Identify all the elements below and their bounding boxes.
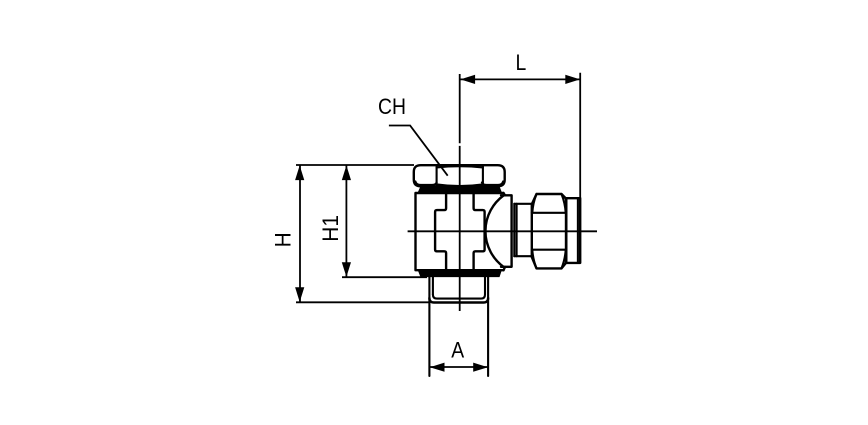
neck washer line (516, 204, 518, 256)
label CH (378, 95, 406, 119)
top hex nut outline (414, 165, 505, 186)
spherical boss arc (485, 196, 503, 267)
dimension H1 line with arrows (342, 165, 351, 277)
stud bottom edge (429, 298, 488, 303)
top gasket ring (418, 186, 502, 192)
body step to rim top (504, 193, 506, 195)
svg-text:L: L (516, 51, 527, 75)
end cap inner line (577, 198, 579, 263)
extension line bottom H (296, 301, 429, 303)
neck bottom edge (514, 255, 532, 257)
neck left edge (513, 204, 515, 256)
label H1 (319, 215, 344, 242)
svg-text:H1: H1 (319, 215, 344, 242)
rim (501, 195, 512, 266)
top hex facet separator left (436, 166, 438, 184)
cartridge hex facet line lower (532, 249, 566, 251)
dimension H line with arrows (295, 165, 304, 302)
top hex facet separator right (482, 166, 484, 184)
horizontal centerline (408, 230, 597, 232)
dimension A line with arrows (430, 363, 488, 372)
leader line CH (389, 126, 448, 176)
bore step left (435, 193, 446, 270)
label H (271, 232, 296, 247)
cartridge hex facet line upper (532, 212, 566, 214)
dimension L line with arrows (460, 75, 580, 84)
extension line right of L (579, 73, 581, 198)
extension line bottom H1 (342, 276, 427, 278)
neck top edge (514, 203, 532, 205)
vertical centerline (459, 74, 461, 143)
stud thread line right (484, 277, 486, 294)
label A (451, 338, 464, 362)
svg-text:H: H (271, 232, 296, 247)
extension line top (H/H1) (296, 164, 414, 166)
label L (516, 51, 527, 75)
bottom gasket ring (418, 270, 502, 277)
stud thread line left (432, 277, 434, 294)
top hex middle facet arcs (437, 166, 483, 186)
end cap (566, 198, 580, 263)
svg-text:A: A (451, 338, 464, 362)
body step to rim bottom (504, 267, 506, 270)
bore step right (474, 193, 485, 270)
top hex outer facet bottom arcs (415, 182, 503, 185)
stud right wall / A extension (487, 277, 489, 376)
cartridge hex facet end arcs (532, 194, 565, 268)
body outline (416, 193, 504, 270)
stud left wall / A extension (428, 277, 430, 376)
stud thread end line (433, 295, 485, 299)
cartridge hex nut outline (532, 194, 566, 268)
svg-text:CH: CH (378, 95, 406, 119)
